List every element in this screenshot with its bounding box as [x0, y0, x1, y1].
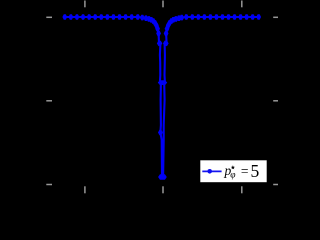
y tick left y=184.5	[46, 184, 52, 186]
svg-text:5: 5	[251, 161, 260, 181]
legend sample line	[202, 170, 221, 172]
y tick right y=100.8	[273, 100, 278, 102]
x tick bottom x=84.9	[84, 186, 86, 193]
y tick right y=184.5	[273, 184, 278, 186]
svg-text:=: =	[241, 163, 249, 178]
x tick bottom x=241.8	[241, 186, 243, 193]
x tick top x=241.8	[241, 1, 243, 8]
x tick bottom x=163.0	[162, 186, 164, 193]
curve diamond markers	[62, 14, 261, 180]
y tick left y=17.3	[46, 17, 52, 19]
x tick top x=163.0	[162, 1, 164, 8]
x tick top x=84.9	[84, 1, 86, 8]
legend sample marker	[207, 169, 212, 174]
legend star superscript	[231, 165, 235, 169]
svg-text:φ: φ	[230, 171, 235, 181]
y tick right y=17.3	[273, 17, 278, 19]
curve line p_phi=5	[65, 17, 259, 177]
legend box	[200, 160, 266, 182]
y tick left y=100.8	[46, 100, 52, 102]
